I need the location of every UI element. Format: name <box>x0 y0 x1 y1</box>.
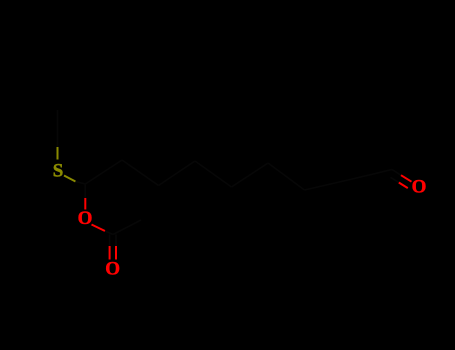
wire: S to C1 bond (black half) <box>76 182 86 185</box>
wire: chain bond P3 to V3 <box>268 163 305 190</box>
wire: C2=O2 carbonyl double bond line 1 black half <box>109 235 111 247</box>
wire: C2=O2 carbonyl double bond line 1 red half <box>109 246 111 260</box>
svg-text:O: O <box>78 208 93 229</box>
wire: chain bond V1 to P2 <box>159 161 196 186</box>
wire: C9=O3 aldehyde double bond line 1 black half <box>392 170 401 176</box>
wire: C9=O3 aldehyde double bond line 2 red half <box>399 183 408 189</box>
wire: C9=O3 aldehyde double bond line 1 red half <box>401 175 412 182</box>
svg-text:S: S <box>53 160 64 181</box>
wire: methyl bond above S (olive half near S) <box>57 147 59 160</box>
wire: chain bond P1 to V1 <box>122 160 159 186</box>
svg-text:O: O <box>105 259 120 280</box>
wire: C2=O2 carbonyl double bond line 2 black half <box>115 235 117 247</box>
wire: chain bond V2 to P3 <box>232 163 269 187</box>
wire: chain bond C8 to C9 aldehyde carbon <box>348 170 392 181</box>
wire: S to C1 bond (olive half near S) <box>64 176 76 182</box>
wire: chain bond P2 to V2 <box>195 161 232 187</box>
wire: O1 to C2 ester bond (red half near O) <box>92 225 106 232</box>
wire: C2=O2 carbonyl double bond line 2 red half <box>115 246 117 260</box>
wire: acetate methyl bond from C2 <box>113 220 141 235</box>
wire: chain bond V3 to C8 <box>305 180 349 190</box>
wire: C1 to O1 bond (red half near O) <box>84 198 86 210</box>
wire: C1 to O1 bond (black half) <box>84 184 86 198</box>
wire: C9=O3 aldehyde double bond line 2 black half <box>391 177 399 182</box>
wire: O1 to C2 ester bond (black half) <box>105 231 113 235</box>
wire: chain bond C1 to P1 <box>85 160 122 184</box>
wire: methyl bond above S (black half) <box>57 110 59 147</box>
svg-text:O: O <box>412 177 427 198</box>
